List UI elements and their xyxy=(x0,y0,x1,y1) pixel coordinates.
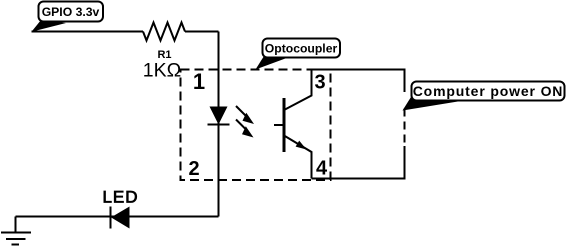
svg-text:Computer power ON: Computer power ON xyxy=(413,83,564,99)
wire: GPIO to resistor xyxy=(32,31,144,33)
LED D2 triangle xyxy=(111,207,130,229)
phototransistor base lead xyxy=(274,124,284,126)
svg-text:Optocoupler: Optocoupler xyxy=(265,42,338,56)
phototransistor emitter to pin 4 xyxy=(284,136,312,179)
svg-text:1KΩ: 1KΩ xyxy=(143,60,181,82)
svg-text:3: 3 xyxy=(314,72,325,94)
callout GPIO 3.3v xyxy=(32,2,104,32)
wire: vertical into optocoupler pin 1 xyxy=(218,32,220,217)
light emission arrow 2 xyxy=(236,120,254,138)
computer power switch header box xyxy=(312,70,405,179)
svg-text:LED: LED xyxy=(102,188,138,207)
svg-text:1: 1 xyxy=(193,69,205,94)
callout Computer power ON xyxy=(403,82,565,111)
phototransistor collector to pin 3 xyxy=(284,70,312,111)
svg-text:2: 2 xyxy=(188,158,199,180)
wire: resistor to node xyxy=(185,31,219,33)
ground symbol xyxy=(1,233,31,245)
bottom wire to LED xyxy=(16,216,219,218)
optocoupler U1 dashed body xyxy=(181,70,331,181)
emitter arrowhead xyxy=(296,141,307,150)
optocoupler internal LED D1 xyxy=(208,107,230,125)
wire down to ground xyxy=(15,217,17,233)
svg-text:4: 4 xyxy=(316,158,328,180)
LED D2 cathode bar xyxy=(110,207,112,229)
resistor R1 xyxy=(143,23,185,41)
svg-text:GPIO 3.3v: GPIO 3.3v xyxy=(42,5,100,19)
light emission arrow 1 xyxy=(236,106,254,124)
callout Optocoupler xyxy=(256,39,341,70)
phototransistor Q1 base bar xyxy=(283,98,286,152)
